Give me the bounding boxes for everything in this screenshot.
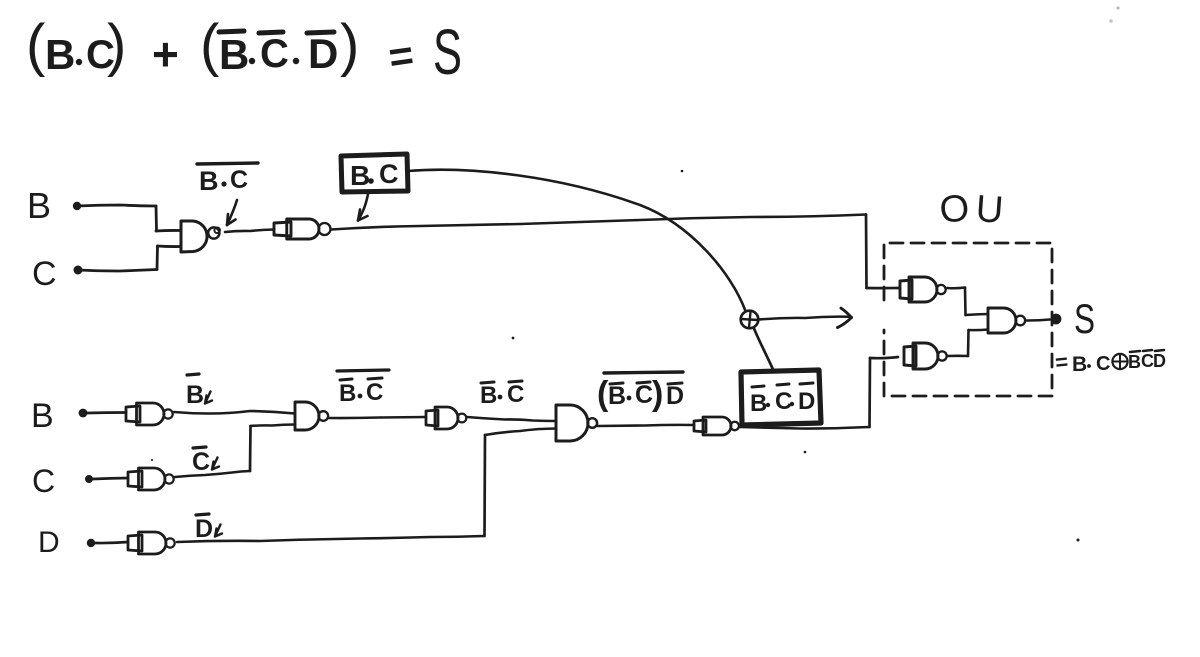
- svg-text:D: D: [38, 526, 60, 559]
- svg-text:B: B: [339, 380, 356, 407]
- svg-text:C: C: [230, 166, 248, 194]
- svg-text:C: C: [379, 159, 399, 189]
- svg-text:D: D: [195, 515, 213, 543]
- svg-text:): ): [340, 13, 359, 78]
- svg-text:C: C: [32, 255, 57, 293]
- svg-text:B: B: [608, 382, 626, 410]
- svg-text:B: B: [45, 31, 75, 78]
- svg-text:D: D: [308, 30, 338, 77]
- svg-text:=: =: [1054, 349, 1069, 375]
- svg-text:C: C: [366, 379, 383, 406]
- svg-text:C: C: [260, 32, 289, 76]
- svg-text:C: C: [775, 388, 792, 415]
- svg-text:C: C: [32, 463, 55, 499]
- svg-text:B: B: [219, 31, 249, 78]
- svg-text:(: (: [26, 13, 45, 78]
- svg-text:C: C: [635, 381, 653, 409]
- svg-text:O: O: [938, 187, 972, 232]
- svg-text:B: B: [31, 397, 54, 435]
- svg-text:B: B: [480, 382, 497, 409]
- svg-text:+: +: [152, 28, 179, 80]
- svg-text:D: D: [1153, 351, 1166, 371]
- svg-text:B: B: [27, 185, 51, 226]
- svg-text:C: C: [1096, 353, 1110, 375]
- svg-text:B: B: [199, 166, 219, 196]
- svg-text:B: B: [1128, 352, 1141, 372]
- svg-text:C: C: [507, 381, 524, 408]
- svg-text:D: D: [798, 388, 815, 415]
- svg-text:D: D: [666, 382, 684, 410]
- svg-text:S: S: [1074, 295, 1095, 342]
- svg-text:U: U: [974, 188, 1004, 232]
- svg-text:): ): [652, 375, 663, 413]
- svg-text:C: C: [192, 448, 210, 476]
- svg-text:B: B: [1072, 353, 1087, 376]
- svg-text:B: B: [186, 381, 204, 409]
- svg-text:(: (: [200, 13, 219, 78]
- svg-text:): ): [107, 13, 126, 78]
- svg-text:B: B: [750, 390, 767, 417]
- svg-text:S: S: [433, 16, 462, 88]
- svg-text:B: B: [350, 160, 370, 191]
